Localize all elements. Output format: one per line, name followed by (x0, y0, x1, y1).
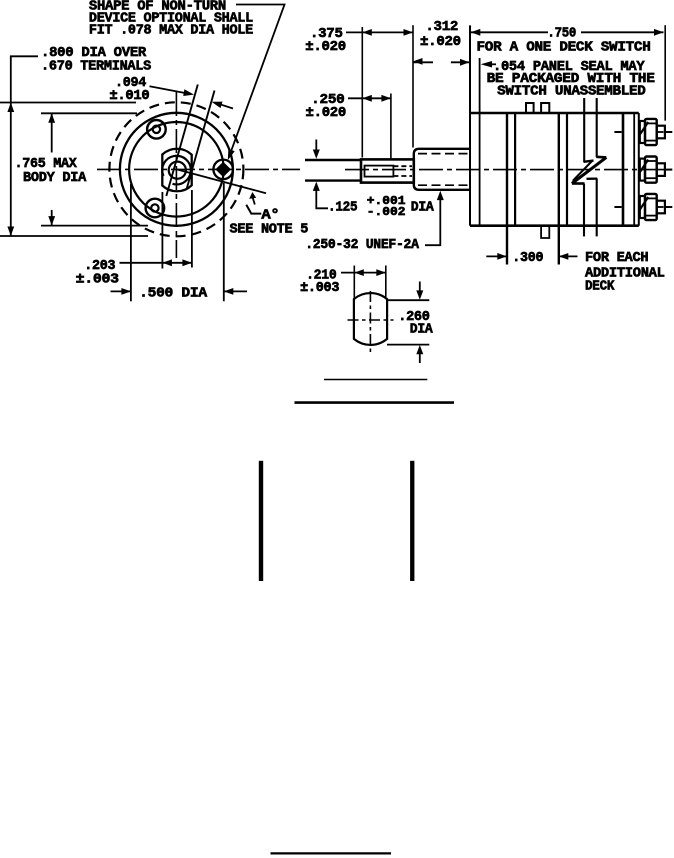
.210 dimension (353, 266, 355, 300)
A-deg angle line (176, 169, 266, 193)
svg-text:±.020: ±.020 (306, 105, 347, 121)
svg-text:FIT .078 MAX DIA HOLE: FIT .078 MAX DIA HOLE (89, 23, 253, 39)
thick rule (295, 401, 455, 404)
svg-text:.312: .312 (425, 19, 458, 35)
svg-text:FOR EACH: FOR EACH (585, 250, 648, 266)
.500 dimension arrows (111, 290, 132, 292)
.094 dimension leader and arrow (150, 86, 186, 93)
hub arc (162, 156, 191, 185)
.054 seal arrow (490, 63, 496, 65)
svg-text:DIA: DIA (411, 199, 435, 215)
non-turn device hole (right, with diamond) (213, 160, 233, 180)
text labels group (15, 0, 665, 337)
mounting hole top-left (147, 120, 166, 139)
top tab 1 (526, 103, 534, 113)
.765 dimension (51, 114, 53, 153)
.750 dimension (471, 31, 548, 33)
cross-section outline (354, 293, 387, 345)
dashed terminal circle .800 dia (109, 102, 243, 236)
vertical centerline front view (175, 92, 177, 258)
.765 extension line bottom (41, 225, 148, 227)
svg-text:±.010: ±.010 (109, 88, 149, 104)
svg-text:FOR A ONE DECK SWITCH: FOR A ONE DECK SWITCH (477, 40, 651, 56)
.375 dimension (361, 27, 363, 158)
.800 extension line top (0, 102, 136, 104)
svg-text:SEE NOTE 5: SEE NOTE 5 (230, 222, 309, 238)
threaded shaft section (361, 159, 414, 182)
mounting hole bottom-left (146, 199, 165, 218)
.203 dimension line with outward arrows (120, 262, 193, 264)
hub barrel (shaft boss with flats) (162, 149, 191, 192)
terminal middle (639, 157, 673, 183)
hub inner circle (169, 162, 186, 179)
svg-text:±.020: ±.020 (305, 39, 346, 55)
A-deg arrow (249, 192, 256, 199)
left table bar (259, 461, 263, 581)
svg-text:.125: .125 (328, 199, 357, 215)
svg-text:SWITCH UNASSEMBLED: SWITCH UNASSEMBLED (497, 83, 645, 99)
svg-text:BODY DIA: BODY DIA (23, 170, 87, 186)
.800 extension line bottom (0, 235, 148, 237)
svg-text:±.003: ±.003 (300, 280, 339, 296)
svg-text:.300: .300 (512, 250, 543, 266)
svg-text:.250-32 UNEF-2A: .250-32 UNEF-2A (305, 237, 419, 253)
svg-text:±.003: ±.003 (76, 272, 119, 288)
bottom tab (541, 226, 549, 238)
.765 extension line top (41, 112, 137, 114)
angle symbol (246, 205, 261, 214)
.250 dimension (390, 94, 392, 161)
leader from SHAPE OF NON-TURN text to diamond hole (230, 5, 285, 156)
svg-text:-.002: -.002 (367, 206, 406, 219)
body outline (469, 25, 471, 225)
.125 dia arrows and leader (315, 140, 317, 150)
flat shaft (305, 159, 361, 161)
tolerance stack text (367, 195, 406, 219)
.312 dimension arrows (413, 61, 433, 63)
top tab 2 (541, 103, 549, 113)
deck separator lines (506, 113, 508, 265)
svg-text:±.020: ±.020 (420, 34, 461, 50)
body circle .765 dia (120, 113, 233, 226)
right table bar (410, 461, 414, 581)
bottom rule (271, 852, 392, 854)
bushing (414, 149, 470, 190)
terminal top (614, 119, 672, 145)
.094 second arrow (220, 104, 233, 108)
.300 dimension (486, 255, 507, 257)
cross-section centerlines (369, 291, 371, 354)
svg-text:.500 DIA: .500 DIA (139, 286, 208, 302)
terminal bottom (614, 194, 672, 220)
inner bolt circle (129, 122, 224, 217)
thin rule (324, 379, 427, 381)
slot line L2 (187, 91, 215, 190)
.260 dimension (387, 299, 429, 301)
svg-text:DIA: DIA (410, 321, 434, 337)
svg-text:.670 TERMINALS: .670 TERMINALS (41, 59, 151, 75)
side view centerline (345, 169, 672, 171)
slot line L1 (166, 85, 198, 197)
svg-text:DECK: DECK (585, 279, 615, 295)
.250-32 leader (437, 191, 444, 200)
break symbol (583, 98, 585, 162)
horizontal centerline front view (97, 168, 300, 170)
.203 extension lines (161, 192, 163, 269)
.500 extension lines (130, 184, 132, 301)
.800 dimension (11, 56, 38, 236)
